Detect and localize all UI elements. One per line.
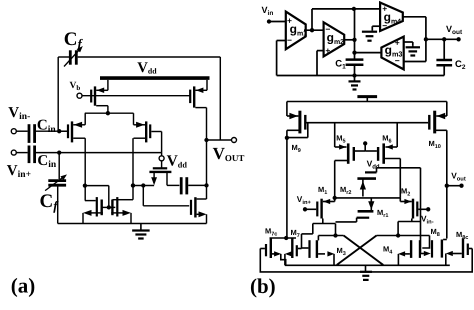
- wire Vin- to Cin1: [16, 130, 28, 132]
- ground gm3 input: [412, 46, 414, 48]
- capacitor miller right: [180, 177, 183, 194]
- nmos M_2: [416, 202, 418, 217]
- pmos M_b1 top-left: [90, 90, 92, 103]
- nmos M_3: [308, 240, 310, 258]
- node B junction: [57, 150, 61, 154]
- wire M4 drain node: [377, 235, 430, 237]
- nmos M_r1 (bottom triode): [358, 210, 374, 213]
- capacitor C_in (lower): [28, 146, 31, 164]
- ground gm4 input: [371, 30, 373, 32]
- wire C2 tap: [443, 39, 445, 59]
- wire M6 source drop: [396, 123, 398, 147]
- capacitor C_2: [436, 59, 452, 62]
- nmos mirror left: [96, 197, 98, 216]
- wire gm4 output: [403, 16, 426, 18]
- wire bottom rail: [58, 223, 207, 225]
- pmos M_10: [446, 102, 448, 117]
- nmos M_1: [316, 202, 318, 217]
- nmos M_7c: [265, 244, 267, 256]
- wire feedback bottom rail: [277, 75, 445, 77]
- pmos M_5: [335, 146, 347, 148]
- wire right source to mirror drain: [122, 199, 134, 201]
- power rail V_dd bar: [100, 76, 210, 80]
- wire M7c/M7 drain node: [270, 237, 297, 239]
- capacitor C_in (upper): [28, 124, 31, 143]
- junction output node mid: [204, 183, 208, 187]
- op-amp gm1: [286, 12, 306, 50]
- wire gm2 output: [345, 39, 355, 41]
- wire V_OUT node: [207, 139, 232, 141]
- nmos mirror right: [116, 197, 118, 216]
- wire gate bias Vb to PMOS gates: [82, 95, 190, 97]
- junction C1 ground node: [352, 73, 356, 77]
- wire M3 drain node: [318, 235, 343, 237]
- wire gm3 minus input: [404, 61, 426, 63]
- op-amp gm2: [324, 22, 345, 56]
- wire second-stage gate node: [133, 185, 154, 187]
- wire source rail: [285, 264, 450, 266]
- terminal V_dd mid: [161, 153, 163, 168]
- wire gate bias rail: [307, 122, 429, 124]
- ground block diagram: [354, 76, 356, 82]
- junction cascode left: [284, 236, 288, 240]
- power bar top: [357, 95, 377, 98]
- svg-text:+: +: [325, 46, 330, 56]
- wire feedback down right side: [219, 57, 221, 140]
- pmos M_b2 top-right: [189, 90, 191, 104]
- wire mid node vertical: [354, 9, 356, 59]
- wire V_out branch: [447, 185, 462, 187]
- junction right source node: [131, 183, 135, 187]
- pmos bias horizontal: [153, 167, 167, 169]
- wire middle node: [335, 197, 401, 199]
- node A junction: [57, 129, 61, 133]
- junction gm1 out: [310, 28, 314, 32]
- wire top feedforward: [312, 8, 380, 10]
- ground figure-a: [140, 224, 142, 231]
- terminal V_in+ schematic: [303, 207, 307, 211]
- wire V_in to gm1: [269, 21, 285, 23]
- wire gm1 out up: [311, 9, 313, 30]
- wire top feedback right: [78, 56, 221, 58]
- nmos input device right: [149, 124, 151, 138]
- wire output branch vertical: [206, 108, 208, 199]
- terminal V_in input dot: [267, 19, 271, 23]
- terminal V_in-: [11, 129, 16, 134]
- wire left gate feed: [85, 185, 109, 187]
- nmos M_4: [419, 240, 421, 258]
- junction M4 drain: [396, 233, 400, 237]
- wire M9 diode connection: [307, 123, 309, 138]
- wire gm3 output: [355, 52, 382, 54]
- pmos M_9: [286, 102, 288, 117]
- nmos M_r2 (top triode): [365, 171, 377, 173]
- wire M4 gate link: [422, 236, 429, 249]
- nmos output device: [190, 200, 192, 215]
- pmos M_6: [385, 146, 397, 148]
- wire cross-couple backslash: [344, 236, 384, 265]
- terminal V_in+: [11, 150, 16, 155]
- junction gm3 out node: [352, 50, 356, 54]
- junction gate node right: [141, 183, 145, 187]
- junction gm2 out node: [352, 38, 356, 42]
- wire out to Vout: [426, 38, 459, 40]
- capacitor C_f (top, variable): [69, 50, 72, 64]
- junction C2 tap: [442, 37, 446, 41]
- svg-text:+: +: [395, 37, 400, 47]
- nmos M_8: [441, 240, 443, 258]
- wire outer bottom rail: [260, 249, 472, 272]
- junction top node: [352, 7, 356, 11]
- wire top feedback left: [58, 56, 69, 58]
- junction V_out schematic: [445, 184, 449, 188]
- wire M5 source drop: [334, 123, 336, 147]
- wire to output NMOS gate: [142, 186, 144, 206]
- junction M3 drain: [333, 233, 337, 237]
- wire gm4 minus to ground: [372, 25, 380, 27]
- svg-text:−: −: [287, 35, 292, 45]
- wire node A horizontal: [36, 130, 67, 132]
- svg-text:(a): (a): [11, 274, 36, 298]
- terminal V_out block: [456, 37, 460, 41]
- junction left source node: [83, 183, 87, 187]
- junction V_OUT: [204, 138, 208, 142]
- wire gm3 plus to ground: [404, 41, 413, 43]
- nmos input device left: [67, 124, 69, 138]
- wire top supply rail: [287, 101, 447, 103]
- wire diff-pair drains: [85, 112, 134, 114]
- wire gm1 output: [304, 29, 323, 31]
- capacitor C_f bottom (variable): [48, 179, 66, 182]
- junction left mid node: [333, 196, 337, 200]
- terminal V_dd schematic: [363, 141, 367, 145]
- terminal V_OUT: [232, 138, 237, 143]
- wire gm2 plus input: [317, 50, 323, 52]
- wire gm1 inv feedback: [277, 40, 286, 42]
- wire gm4 out down: [425, 17, 427, 62]
- terminal V_b: [77, 93, 82, 98]
- junction M9 drain: [285, 136, 289, 140]
- wire M3 gate riser: [301, 234, 303, 249]
- wire cross-couple slash: [337, 236, 377, 265]
- wire bottom Cf to rail: [57, 185, 59, 223]
- op-amp gm4: [380, 3, 403, 32]
- wire node A up to Cf: [57, 57, 59, 131]
- junction gate node left: [131, 183, 135, 187]
- terminal V_in- schematic: [426, 207, 430, 211]
- wire node B down: [58, 153, 60, 179]
- ground schematic: [365, 265, 367, 271]
- terminal V_out schematic: [459, 184, 463, 188]
- wire node B horizontal: [36, 152, 162, 154]
- capacitor C_1: [346, 58, 364, 61]
- junction mirror gates node: [107, 205, 111, 209]
- nmos M_8c: [462, 238, 464, 258]
- nmos M_7: [296, 245, 298, 256]
- op-amp gm3 (left-pointing): [381, 37, 403, 70]
- wire mirror cross link: [103, 206, 116, 208]
- svg-text:(b): (b): [250, 274, 276, 298]
- wire Vin+ to Cin2: [16, 152, 28, 154]
- junction first-stage load node: [106, 111, 110, 115]
- junction Vout node: [424, 37, 428, 41]
